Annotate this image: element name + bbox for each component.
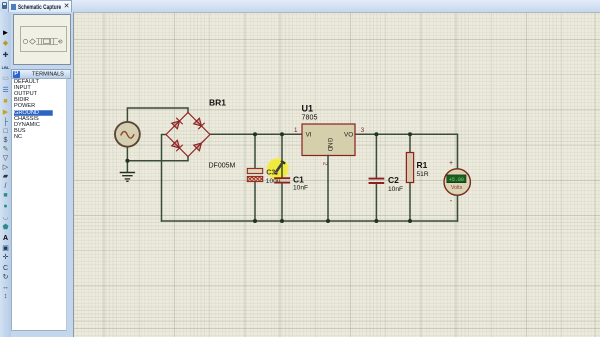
svg-text:C1: C1	[293, 174, 304, 184]
toolbar icon marker	[0, 253, 11, 262]
toolbar icon rotate ccw	[0, 273, 11, 282]
wire U1 GND pin to bottom rail	[327, 156, 329, 222]
terminals list	[11, 78, 67, 331]
svg-text:-: -	[450, 196, 453, 205]
resistor R1 wires	[409, 134, 411, 221]
left toolbar	[0, 12, 12, 337]
toolbar icon mirror v	[0, 292, 11, 301]
toolbar icon wire label	[0, 63, 11, 72]
svg-text:10nF: 10nF	[388, 186, 403, 193]
svg-text:1: 1	[294, 127, 298, 134]
svg-text:VI: VI	[306, 132, 312, 139]
node dot U1 gnd	[326, 219, 330, 223]
toolbar icon voltage probe	[0, 154, 11, 163]
toolbar icon 2d text	[0, 234, 11, 243]
toolbar icon terminal	[0, 108, 11, 117]
ground	[120, 173, 134, 182]
svg-text:3: 3	[361, 127, 365, 134]
toolbar icon subcircuit	[0, 97, 11, 106]
svg-text:C3: C3	[266, 168, 275, 177]
svg-text:+5.00: +5.00	[449, 177, 464, 183]
wire AC bottom to ground junction	[126, 146, 128, 171]
terminals header	[11, 69, 71, 79]
capacitor C3 wires	[254, 134, 256, 221]
toolbar icon bus	[0, 86, 11, 95]
AC source V1	[115, 122, 140, 147]
capacitor C1 wires	[281, 134, 283, 221]
bridge rectifier BR1	[166, 113, 210, 157]
wire voltmeter bottom	[457, 195, 459, 221]
top tab bar	[0, 0, 600, 13]
diode D-bottomright	[194, 140, 205, 151]
toolbar icon 2d line	[0, 182, 11, 191]
wire top rail bridge to U1	[210, 133, 302, 135]
node dots C3	[253, 132, 257, 136]
toolbar icon tape	[0, 136, 11, 145]
svg-text:BR1: BR1	[209, 98, 226, 108]
toolbar icon 2d path	[0, 223, 11, 232]
toolbar icon instrument	[0, 172, 11, 181]
schematic capture tab	[8, 0, 72, 12]
node dots C2	[374, 132, 378, 136]
svg-text:R1: R1	[417, 160, 428, 170]
capacitor C3 (electrolytic)	[247, 168, 263, 181]
diode D-topright	[194, 118, 205, 129]
wire junction to bridge bottom	[127, 157, 188, 161]
toolbar icon 2d box	[0, 191, 11, 200]
svg-text:DF005M: DF005M	[209, 163, 236, 170]
wire bottom rail	[162, 220, 458, 222]
node junction at AC bottom	[125, 159, 129, 163]
application icon	[2, 2, 7, 9]
toolbar icon 2d circle	[0, 202, 11, 211]
node dots C1	[280, 132, 284, 136]
toolbar icon graph	[0, 127, 11, 136]
toolbar icon 2d symbol	[0, 244, 11, 253]
svg-text:GND: GND	[326, 138, 333, 152]
overview preview window	[13, 14, 71, 65]
wire bridge left stub and drop to bottom rail	[162, 135, 167, 222]
wire top rail U1 to voltmeter corner	[355, 134, 458, 169]
cursor highlight circle	[267, 159, 288, 180]
svg-text:C2: C2	[388, 175, 399, 185]
toolbar icon generator	[0, 145, 11, 154]
left panel	[11, 12, 73, 337]
svg-text:+: +	[449, 160, 453, 167]
pencil cursor	[275, 161, 284, 175]
svg-text:VO: VO	[344, 132, 353, 139]
diode D-bottomleft	[172, 140, 183, 151]
toolbar icon device pin	[0, 118, 11, 127]
toolbar icon selection arrow	[0, 28, 11, 37]
resistor R1	[406, 153, 413, 183]
svg-text:51R: 51R	[417, 171, 429, 178]
toolbar icon current probe	[0, 163, 11, 172]
toolbar icon mirror h	[0, 283, 11, 292]
capacitor C2	[370, 179, 384, 183]
toolbar icon component	[0, 39, 11, 48]
diode D-topleft	[172, 118, 183, 129]
toolbar icon 2d arc	[0, 213, 11, 222]
node dots R1	[408, 132, 412, 136]
svg-text:2: 2	[322, 162, 329, 166]
voltmeter	[444, 169, 470, 195]
toolbar icon rotate cw	[0, 264, 11, 273]
svg-text:7805: 7805	[302, 112, 318, 121]
regulator U1 7805	[302, 124, 355, 156]
toolbar icon junction	[0, 51, 11, 60]
svg-text:10nF: 10nF	[293, 185, 308, 192]
capacitor C1	[275, 178, 289, 182]
wire AC top to bridge top	[127, 108, 188, 122]
capacitor C2 wires	[375, 134, 377, 221]
toolbar icon text script	[0, 74, 11, 83]
svg-text:Volts: Volts	[451, 185, 463, 191]
